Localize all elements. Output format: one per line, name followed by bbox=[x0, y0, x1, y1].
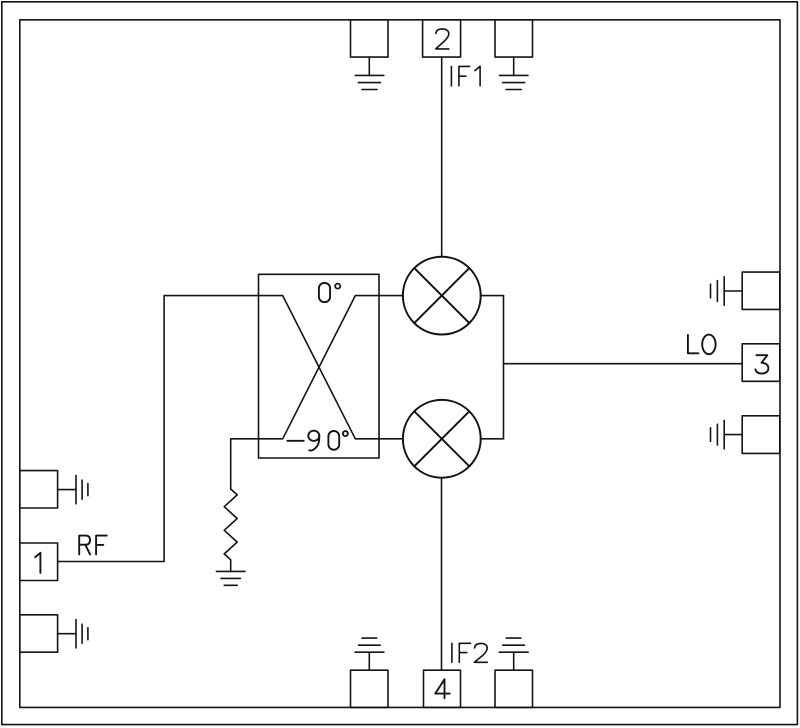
ground (top-left) bbox=[355, 75, 384, 89]
pad right-lower (ground pad) bbox=[742, 416, 780, 454]
label IF2 bbox=[451, 643, 453, 662]
pad top-right (ground pad) bbox=[495, 20, 533, 57]
wire bottom-left pad to ground bbox=[368, 652, 370, 670]
wire LO combiner vertical bbox=[503, 296, 505, 439]
pin number 4 bbox=[435, 679, 450, 698]
pad left-lower (ground pad) bbox=[20, 615, 58, 652]
pad bottom-right (ground pad) bbox=[495, 670, 533, 707]
wire mixer M1 to LO node bbox=[481, 295, 504, 297]
label 0 degree bbox=[319, 283, 330, 302]
wire hybrid -90deg to resistor bbox=[231, 439, 259, 489]
ground (left-lower, pointing right) bbox=[76, 620, 88, 648]
wire left-upper pad to ground bbox=[58, 489, 76, 491]
quadrature hybrid box bbox=[259, 274, 380, 458]
ground (left-upper, pointing right) bbox=[76, 475, 88, 503]
ground (bottom-right, pointing up) bbox=[499, 638, 528, 652]
wire bottom-right pad to ground bbox=[513, 652, 515, 670]
pin number 2 bbox=[436, 29, 449, 49]
ground (top-right) bbox=[500, 75, 529, 89]
label IF1 bbox=[450, 66, 452, 85]
wire hybrid 0-deg to mixer M1 bbox=[379, 295, 403, 297]
wire right-lower pad to ground bbox=[724, 434, 742, 436]
pad right-upper (ground pad) bbox=[742, 272, 780, 309]
pad top-left (ground pad) bbox=[351, 20, 389, 57]
wire left-lower pad to ground bbox=[58, 633, 76, 635]
wire RF to hybrid bbox=[58, 296, 259, 562]
ground (resistor) bbox=[216, 571, 245, 585]
pad 4 (IF2) bbox=[424, 670, 461, 707]
pad 3 (LO) bbox=[742, 344, 780, 382]
wire right-upper pad to ground bbox=[724, 290, 742, 292]
label RF bbox=[79, 536, 90, 555]
pin number 1 bbox=[35, 553, 40, 573]
ground (bottom-left, pointing up) bbox=[355, 638, 384, 652]
pad 2 (IF1) bbox=[423, 20, 461, 57]
wire mixer M2 to LO node bbox=[481, 438, 504, 440]
label LO bbox=[688, 335, 699, 353]
label -90 degree bbox=[287, 440, 303, 442]
pad bottom-left (ground pad) bbox=[351, 670, 389, 707]
pad 1 (RF) bbox=[20, 543, 58, 581]
hybrid crossover lines bbox=[259, 296, 380, 439]
mixer M2 (bottom) bbox=[403, 400, 481, 478]
wire hybrid -90deg to mixer M2 bbox=[379, 438, 403, 440]
wire IF2 bbox=[441, 478, 443, 671]
pin number 3 bbox=[755, 355, 768, 373]
ground (right-lower, pointing left) bbox=[711, 420, 725, 448]
wire IF1 bbox=[441, 57, 443, 257]
ground (right-upper, pointing left) bbox=[711, 277, 725, 305]
pad left-upper (ground pad) bbox=[20, 471, 58, 508]
wire top-left pad to ground bbox=[368, 57, 370, 75]
resistor R1 bbox=[224, 489, 237, 571]
wire LO to pad 3 bbox=[504, 363, 743, 365]
mixer M1 (top) bbox=[403, 257, 481, 335]
wire top-right pad to ground bbox=[513, 57, 515, 75]
